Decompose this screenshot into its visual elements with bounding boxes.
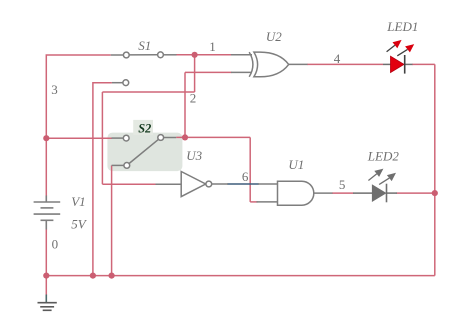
wire net2 vertical S2 common up to XOR row (184, 72, 186, 137)
switch S2 (112, 135, 177, 169)
LED1 (383, 40, 414, 74)
inverter U3 (156, 172, 229, 197)
svg-text:4: 4 (334, 51, 341, 66)
svg-text:3: 3 (51, 82, 58, 97)
node net1 junction (192, 52, 198, 58)
svg-text:S2: S2 (138, 122, 151, 136)
and gate U1 (257, 181, 333, 205)
node net0 junction rail x93 (90, 273, 96, 279)
svg-text:LED1: LED1 (386, 19, 418, 34)
wire net1 vertical down to inverter row (101, 92, 103, 184)
wire net1 into U3 input (102, 183, 156, 185)
svg-text:U2: U2 (266, 29, 282, 44)
ground (38, 295, 57, 311)
wire net0 battery negative lead (45, 229, 47, 276)
wire net0 right rail (434, 64, 436, 275)
svg-text:0: 0 (52, 237, 59, 252)
wire net6 U3 output to AND input A (blue) (227, 183, 259, 185)
svg-text:LED2: LED2 (367, 149, 400, 164)
wire net3 battery lead (45, 138, 47, 196)
wire net1 S1 common to XOR input A (176, 54, 232, 56)
xor gate U2 (231, 52, 308, 77)
wire net1 vertical drop from S1 junction (194, 55, 196, 92)
wire net3 top (battery+ to S1 throw1) (46, 55, 111, 138)
wire S2 throw2 to ground rail (111, 165, 113, 275)
svg-text:S1: S1 (138, 38, 151, 53)
node net3 junction (43, 135, 49, 141)
wire net0 LED1 cathode to right rail (412, 63, 435, 65)
wire net2 S2 common horizontal (176, 136, 250, 138)
wire net2 to XOR input B (185, 71, 232, 73)
wire net0 LED2 cathode to right rail (397, 192, 435, 194)
wire net5 AND output to LED2 (332, 192, 354, 194)
node net2 junction (182, 134, 188, 140)
svg-text:V1: V1 (71, 194, 85, 209)
wire net0 ground stem (45, 276, 47, 296)
svg-text:2: 2 (190, 91, 197, 106)
wire net2 into AND input B (250, 201, 257, 203)
svg-text:6: 6 (242, 169, 249, 184)
node net0 junction right rail (432, 190, 438, 196)
wire net4 XOR output to LED1 (307, 63, 383, 65)
LED2 (353, 169, 397, 203)
svg-text:1: 1 (209, 39, 216, 54)
battery V1 (34, 196, 61, 230)
wire net3 branch to S2 throw1 (46, 137, 112, 139)
svg-text:U3: U3 (186, 148, 202, 163)
svg-text:5: 5 (339, 177, 346, 192)
node net0 junction battery/ground (43, 273, 49, 279)
switch S1 (111, 52, 177, 86)
svg-text:5V: 5V (71, 216, 88, 231)
node net0 junction rail x112 (109, 273, 115, 279)
wire S1 throw2 to ground rail (93, 83, 112, 276)
wire net0 bottom rail (46, 275, 435, 277)
switch S2 highlight box (107, 120, 182, 171)
wire net1 horizontal to left (102, 91, 194, 93)
svg-text:U1: U1 (288, 157, 304, 172)
wire net2 vertical down to AND row (249, 137, 251, 202)
